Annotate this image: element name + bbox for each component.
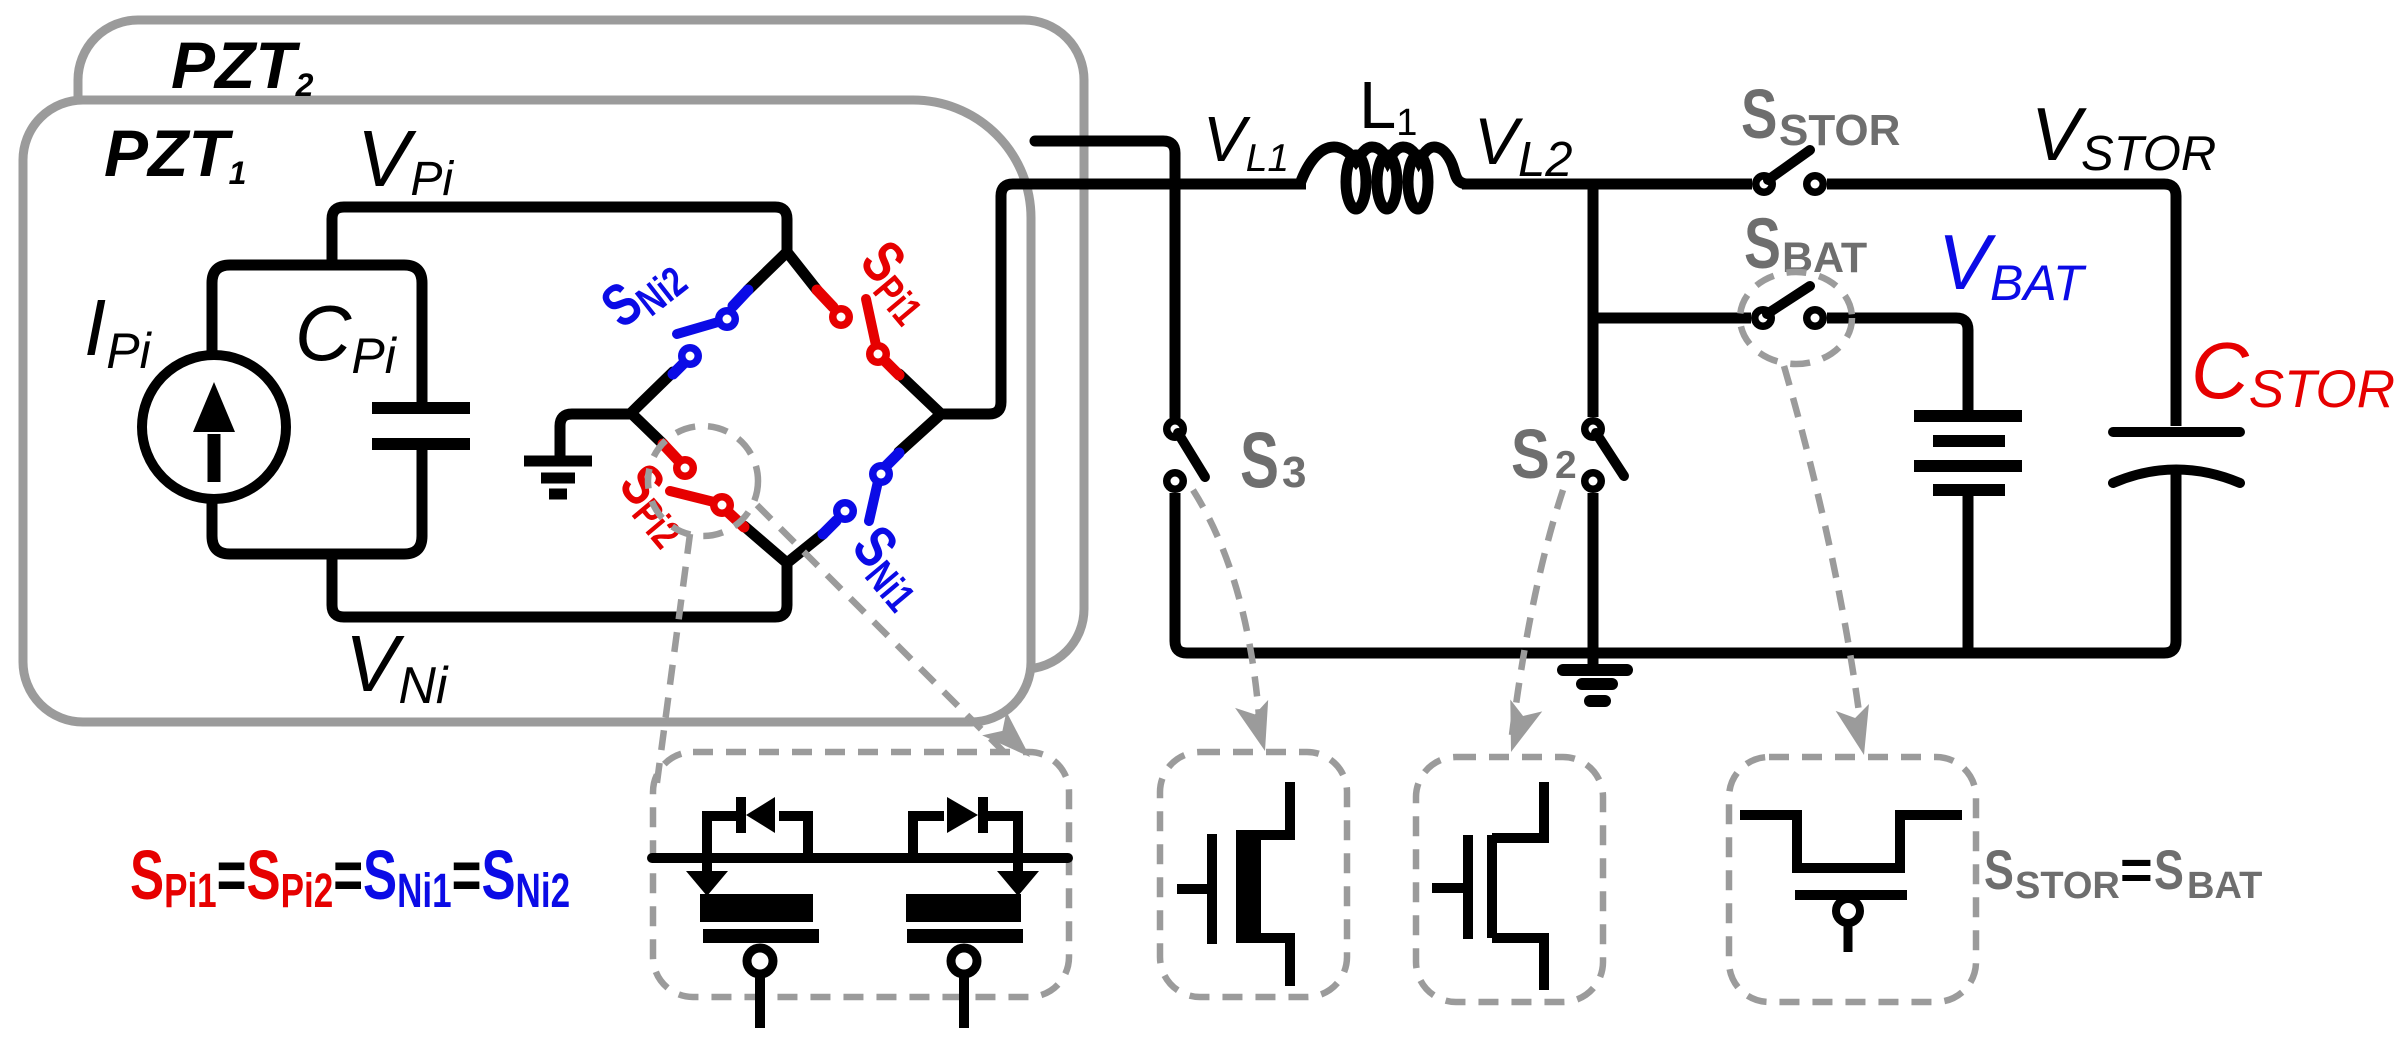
- ground symbol 1: [524, 456, 592, 467]
- svg-text:=: =: [2120, 838, 2153, 901]
- left body diode: [736, 797, 746, 833]
- arrowhead into box4: [1836, 702, 1882, 759]
- label SSTOR=SBAT: [1984, 838, 2262, 907]
- capacitor CSTOR bottom plate (curved): [2113, 470, 2240, 484]
- arrowhead into box3: [1496, 700, 1543, 758]
- switch SPi2 contact circles: [673, 456, 697, 480]
- switch SPi2 red segments: [663, 444, 678, 460]
- S2 NMOS drain: [1492, 782, 1544, 838]
- box3 dashed (S2 implementation): [1416, 757, 1603, 1002]
- capacitor CPi plates: [372, 402, 470, 414]
- bridge edge top-left black segments: [748, 252, 787, 290]
- current source IPi circle: [142, 355, 286, 499]
- label SPi1: [845, 229, 949, 334]
- switch SNi1 blade: [869, 477, 879, 521]
- right gate circle: [951, 948, 977, 974]
- arrowhead into box1: [982, 710, 1042, 769]
- left MOSFET body loop: [707, 816, 808, 858]
- dashed pointer S2 to box3: [1512, 490, 1563, 735]
- switch SPi2 blade: [670, 491, 718, 503]
- left MOSFET channel bar: [700, 894, 813, 922]
- S3 NMOS source: [1258, 938, 1290, 986]
- left MOSFET down arrow: [702, 858, 712, 874]
- PZT1 box: [23, 100, 1031, 722]
- left gate stem: [755, 975, 765, 1028]
- wire VNi (bottom wire from CPi loop to bridge bottom vertex): [332, 554, 787, 617]
- switch S2 circles: [1581, 417, 1605, 441]
- box4 gate circle: [1836, 899, 1860, 923]
- bridge edge bottom-left black segments: [631, 413, 663, 444]
- switch SSTOR blade: [1768, 150, 1810, 180]
- switch SPi1 blade: [866, 299, 877, 350]
- switch S3 circles: [1163, 417, 1187, 441]
- svg-text:S: S: [1240, 415, 1279, 504]
- box4 dashed (SSTOR/SBAT implementation): [1729, 757, 1976, 1002]
- wire from PZT2 output (upper wire): [1035, 141, 1175, 417]
- box2 dashed (S3 implementation): [1160, 752, 1347, 997]
- main rail from SSTOR to CSTOR corner: [1827, 184, 2176, 426]
- label S3: [1240, 415, 1306, 504]
- switch SNi2 blue segments: [733, 290, 748, 306]
- wire bridge output to main rail: [941, 184, 1306, 414]
- dashed pointer line to box1 with arrow: [757, 505, 1005, 753]
- svg-text:3: 3: [1282, 448, 1306, 497]
- switch SSTOR circles: [1752, 172, 1776, 196]
- inductor L1: [1300, 147, 1466, 184]
- S2 NMOS gate bar: [1463, 835, 1473, 939]
- right MOSFET body loop: [913, 816, 1018, 858]
- dashed pointer SBAT to box4: [1784, 366, 1862, 735]
- capacitor CSTOR top plate: [2113, 427, 2240, 437]
- CPi loop (rounded rect with gap for capacitor): [212, 265, 422, 554]
- label SBAT: [1744, 204, 1867, 283]
- ground wire at bridge left vertex: [560, 414, 631, 457]
- svg-text:PZT1: PZT1: [104, 116, 246, 191]
- svg-text:S: S: [2154, 838, 2184, 901]
- bridge edge bottom-right black segments: [787, 534, 823, 563]
- right MOSFET gate bar: [907, 929, 1023, 943]
- box1 rail: [652, 853, 1068, 863]
- switch SPi1 contact circles: [829, 305, 853, 329]
- S3 NMOS gate bar: [1207, 834, 1217, 944]
- svg-text:S: S: [1511, 415, 1550, 493]
- S2 NMOS source: [1492, 938, 1544, 990]
- S2 branch vertical upper: [1588, 184, 1599, 417]
- switch SBAT circles: [1751, 306, 1775, 330]
- svg-text:STOR: STOR: [1779, 106, 1900, 155]
- switch SBAT blade: [1767, 286, 1810, 314]
- svg-text:2: 2: [1555, 444, 1577, 487]
- label SNi2: [589, 239, 695, 343]
- switch SNi1 blue segments: [823, 521, 836, 534]
- dashed tail left to box1: [656, 534, 690, 790]
- box4 gate stem: [1844, 924, 1853, 952]
- main rail from inductor to SSTOR: [1462, 179, 1752, 190]
- S2 NMOS gate lead: [1432, 883, 1464, 893]
- svg-text:PZT2: PZT2: [171, 28, 314, 103]
- SBAT wire from S2 branch to battery: [1593, 313, 1751, 324]
- svg-text:S: S: [1741, 76, 1777, 154]
- label SPi2: [604, 452, 708, 557]
- S3 NMOS channel bar (thick): [1236, 830, 1261, 943]
- bridge edge top-right black segments: [787, 252, 817, 290]
- svg-text:S: S: [1744, 204, 1781, 283]
- box4 source-drain U electrode: [1740, 815, 1962, 868]
- switch S3 blade: [1178, 433, 1205, 477]
- svg-text:STOR: STOR: [2015, 865, 2120, 907]
- label SSTOR: [1741, 76, 1900, 155]
- battery bottom lead: [1963, 496, 1974, 653]
- S3 branch vertical lower + bottom rail: [1175, 474, 2176, 653]
- S3 NMOS gate lead: [1177, 884, 1207, 894]
- ground symbol 2 under S2: [1588, 653, 1599, 668]
- S2 branch vertical lower: [1588, 493, 1599, 653]
- S3 NMOS drain: [1258, 782, 1290, 835]
- switch SNi2 blade: [677, 320, 725, 334]
- arrowhead into box2: [1235, 698, 1282, 756]
- wire VPi (top wire from CPi loop to bridge top vertex): [332, 207, 787, 264]
- right body diode: [978, 797, 988, 833]
- S2 NMOS channel: [1487, 835, 1497, 938]
- label SNi1: [837, 514, 942, 620]
- dashed circle around SBAT: [1740, 272, 1852, 364]
- right gate stem: [959, 975, 969, 1028]
- legend SPi1=SPi2=SNi1=SNi2: [130, 836, 570, 917]
- current source arrow: [208, 434, 221, 482]
- switch SPi1 red segments: [817, 290, 833, 307]
- battery VBAT plates: [1914, 410, 2022, 422]
- switch SNi2 contact circles: [715, 307, 739, 331]
- label S2: [1511, 415, 1577, 493]
- dashed pointer S3 to box2: [1193, 490, 1260, 730]
- dashed ellipse around SPi2: [648, 426, 758, 536]
- left MOSFET gate bar: [703, 929, 819, 943]
- switch SNi1 contact circles: [833, 499, 857, 523]
- left gate circle: [747, 948, 773, 974]
- right MOSFET channel bar: [906, 894, 1021, 922]
- PZT2 box: [78, 20, 1084, 669]
- switch S2 blade: [1596, 433, 1624, 476]
- box1 dashed (bridge switch implementation): [653, 752, 1069, 997]
- svg-text:BAT: BAT: [2187, 865, 2262, 907]
- svg-text:S: S: [1984, 838, 2014, 901]
- box4 channel bar: [1795, 890, 1907, 900]
- right MOSFET down arrow: [1013, 858, 1023, 874]
